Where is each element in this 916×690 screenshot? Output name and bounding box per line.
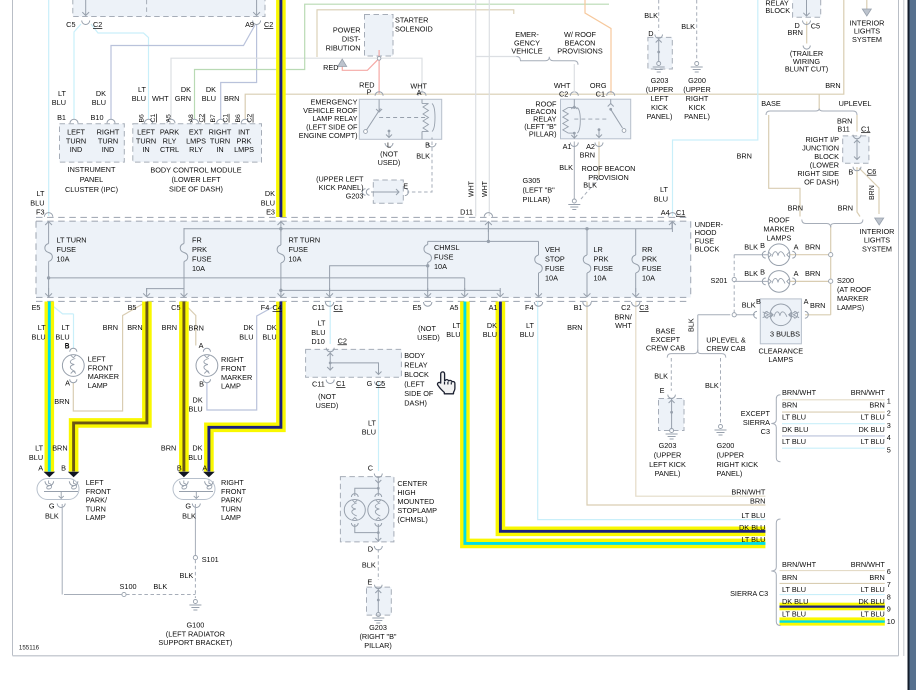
svg-text:LAMP: LAMP bbox=[221, 513, 241, 522]
svg-text:10A: 10A bbox=[545, 274, 558, 283]
svg-text:IN: IN bbox=[142, 145, 149, 154]
svg-text:PANEL): PANEL) bbox=[684, 112, 710, 121]
svg-text:B10: B10 bbox=[91, 113, 104, 122]
svg-text:LT: LT bbox=[58, 89, 67, 98]
svg-text:A4: A4 bbox=[661, 208, 670, 217]
svg-text:BLK: BLK bbox=[742, 301, 756, 310]
svg-text:E5: E5 bbox=[32, 303, 41, 312]
svg-text:BRN: BRN bbox=[580, 151, 595, 160]
svg-text:F3: F3 bbox=[36, 208, 45, 217]
svg-text:A: A bbox=[38, 464, 43, 473]
svg-text:BLU: BLU bbox=[31, 333, 45, 342]
svg-text:(RIGHT "B": (RIGHT "B" bbox=[359, 632, 396, 641]
svg-text:DK BLU: DK BLU bbox=[782, 597, 808, 606]
svg-text:LT: LT bbox=[660, 185, 669, 194]
svg-text:A1: A1 bbox=[489, 303, 498, 312]
svg-text:LIGHTS: LIGHTS bbox=[864, 236, 890, 245]
svg-text:LT: LT bbox=[62, 323, 71, 332]
svg-text:LAMP: LAMP bbox=[88, 381, 108, 390]
svg-text:BRN: BRN bbox=[127, 323, 142, 332]
svg-text:BRN/WHT: BRN/WHT bbox=[731, 487, 766, 496]
svg-text:A9: A9 bbox=[245, 20, 254, 29]
svg-text:B: B bbox=[61, 464, 66, 473]
svg-text:(LEFT "B": (LEFT "B" bbox=[523, 186, 556, 195]
svg-text:A: A bbox=[417, 88, 422, 97]
svg-text:BRN: BRN bbox=[838, 204, 853, 213]
svg-text:E3: E3 bbox=[266, 208, 275, 217]
svg-text:A: A bbox=[794, 269, 799, 278]
svg-text:LT: LT bbox=[38, 323, 47, 332]
svg-text:RIGHT: RIGHT bbox=[221, 355, 244, 364]
svg-text:KICK: KICK bbox=[651, 103, 668, 112]
svg-text:B: B bbox=[177, 464, 182, 473]
svg-text:BRN: BRN bbox=[825, 81, 840, 90]
svg-text:DK: DK bbox=[193, 396, 203, 405]
svg-text:C6: C6 bbox=[867, 167, 876, 176]
svg-text:C2: C2 bbox=[621, 303, 630, 312]
svg-text:BRN: BRN bbox=[52, 444, 67, 453]
svg-text:LT: LT bbox=[37, 189, 46, 198]
svg-text:FRONT: FRONT bbox=[221, 364, 247, 373]
svg-text:SYSTEM: SYSTEM bbox=[862, 244, 892, 253]
svg-text:A: A bbox=[65, 379, 70, 388]
svg-text:B: B bbox=[199, 379, 204, 388]
svg-text:DIST-: DIST- bbox=[342, 35, 361, 44]
svg-text:IN: IN bbox=[216, 145, 223, 154]
svg-text:10A: 10A bbox=[642, 274, 655, 283]
svg-text:BRN: BRN bbox=[787, 28, 802, 37]
svg-text:LAMPS: LAMPS bbox=[768, 355, 793, 364]
svg-text:BLUNT CUT): BLUNT CUT) bbox=[785, 65, 828, 74]
svg-text:8: 8 bbox=[887, 593, 891, 602]
svg-text:SIERRA C3: SIERRA C3 bbox=[730, 589, 768, 598]
svg-text:LEFT: LEFT bbox=[651, 94, 669, 103]
svg-text:BLK: BLK bbox=[705, 381, 719, 390]
svg-text:BLK: BLK bbox=[182, 511, 196, 520]
svg-text:FUSE: FUSE bbox=[545, 264, 565, 273]
svg-text:G305: G305 bbox=[523, 176, 541, 185]
svg-text:7: 7 bbox=[887, 580, 891, 589]
svg-text:RED: RED bbox=[323, 63, 338, 72]
svg-text:6: 6 bbox=[887, 567, 891, 576]
svg-text:10A: 10A bbox=[192, 264, 205, 273]
svg-text:10: 10 bbox=[887, 617, 895, 626]
svg-text:HIGH: HIGH bbox=[397, 488, 415, 497]
svg-text:BLK: BLK bbox=[180, 571, 194, 580]
svg-text:BLK: BLK bbox=[362, 561, 376, 570]
svg-text:C: C bbox=[368, 464, 373, 473]
svg-text:2: 2 bbox=[887, 409, 891, 418]
svg-text:BLU: BLU bbox=[132, 94, 146, 103]
svg-text:DK: DK bbox=[192, 444, 202, 453]
svg-text:BRN: BRN bbox=[162, 323, 177, 332]
svg-text:CTRL: CTRL bbox=[160, 145, 179, 154]
svg-text:RIGHT: RIGHT bbox=[221, 478, 244, 487]
svg-text:(AT ROOF: (AT ROOF bbox=[837, 285, 872, 294]
svg-text:MARKER: MARKER bbox=[88, 372, 119, 381]
svg-text:9: 9 bbox=[887, 605, 891, 614]
svg-text:RLY: RLY bbox=[163, 136, 177, 145]
svg-text:FRONT: FRONT bbox=[221, 487, 247, 496]
svg-text:D10: D10 bbox=[311, 337, 324, 346]
svg-text:BLU: BLU bbox=[261, 199, 275, 208]
svg-text:A5: A5 bbox=[450, 303, 459, 312]
svg-text:FUSE: FUSE bbox=[57, 245, 77, 254]
svg-text:4: 4 bbox=[887, 433, 891, 442]
svg-text:BLK: BLK bbox=[559, 163, 573, 172]
svg-text:LT: LT bbox=[453, 321, 462, 330]
svg-text:DK: DK bbox=[243, 323, 253, 332]
svg-text:RIBUTION: RIBUTION bbox=[326, 44, 361, 53]
svg-text:(UPPER: (UPPER bbox=[654, 450, 682, 459]
svg-text:LT: LT bbox=[35, 444, 44, 453]
svg-text:D: D bbox=[648, 29, 653, 38]
svg-text:BODY: BODY bbox=[404, 351, 425, 360]
svg-text:BRN: BRN bbox=[869, 185, 876, 200]
svg-text:PANEL): PANEL) bbox=[655, 469, 681, 478]
svg-text:D11: D11 bbox=[460, 208, 473, 217]
svg-text:A: A bbox=[199, 341, 204, 350]
svg-text:BLU: BLU bbox=[52, 98, 66, 107]
svg-text:E: E bbox=[367, 577, 372, 586]
svg-text:E5: E5 bbox=[413, 303, 422, 312]
svg-text:BLU: BLU bbox=[362, 428, 376, 437]
svg-text:BLU: BLU bbox=[202, 94, 216, 103]
svg-text:BRN: BRN bbox=[782, 400, 797, 409]
svg-text:B: B bbox=[848, 167, 853, 176]
svg-text:DK: DK bbox=[96, 89, 106, 98]
svg-text:1: 1 bbox=[887, 396, 891, 405]
svg-text:A: A bbox=[202, 464, 207, 473]
svg-text:WHT: WHT bbox=[482, 180, 489, 197]
svg-text:PARK/: PARK/ bbox=[221, 496, 243, 505]
svg-text:EXT: EXT bbox=[189, 128, 204, 137]
svg-text:DK BLU: DK BLU bbox=[858, 597, 884, 606]
svg-text:G: G bbox=[49, 501, 55, 510]
svg-text:WHT: WHT bbox=[468, 180, 475, 197]
svg-text:VEHICLE: VEHICLE bbox=[511, 47, 542, 56]
svg-text:PILLAR): PILLAR) bbox=[364, 641, 392, 650]
svg-text:IND: IND bbox=[70, 145, 83, 154]
svg-text:B: B bbox=[760, 268, 765, 277]
svg-text:WHT: WHT bbox=[152, 94, 169, 103]
svg-text:F4: F4 bbox=[261, 303, 270, 312]
svg-text:BRN: BRN bbox=[54, 397, 69, 406]
svg-text:C3: C3 bbox=[639, 303, 648, 312]
svg-text:BRN: BRN bbox=[750, 496, 765, 505]
svg-text:BLU: BLU bbox=[188, 405, 202, 414]
svg-text:LT BLU: LT BLU bbox=[741, 535, 765, 544]
svg-text:LT BLU: LT BLU bbox=[782, 610, 806, 619]
svg-text:S200: S200 bbox=[837, 276, 854, 285]
svg-text:LEFT KICK: LEFT KICK bbox=[649, 460, 686, 469]
svg-text:PILLAR): PILLAR) bbox=[523, 195, 551, 204]
svg-text:(LEFT RADIATOR: (LEFT RADIATOR bbox=[166, 629, 225, 638]
svg-text:ENGINE COMPT): ENGINE COMPT) bbox=[299, 131, 358, 140]
svg-text:LAMP: LAMP bbox=[221, 382, 241, 391]
svg-text:LAMP: LAMP bbox=[86, 513, 106, 522]
svg-text:IND: IND bbox=[102, 145, 115, 154]
svg-text:KICK: KICK bbox=[688, 103, 705, 112]
svg-text:PROVISIONS: PROVISIONS bbox=[557, 47, 603, 56]
svg-text:PRK: PRK bbox=[594, 255, 609, 264]
svg-text:E: E bbox=[403, 182, 408, 191]
svg-text:PRK: PRK bbox=[642, 255, 657, 264]
svg-text:RLY: RLY bbox=[189, 145, 203, 154]
svg-text:SOLENOID: SOLENOID bbox=[395, 25, 433, 34]
svg-text:DK: DK bbox=[206, 85, 216, 94]
svg-text:FUSE: FUSE bbox=[434, 253, 454, 262]
svg-text:BRN: BRN bbox=[782, 573, 797, 582]
svg-text:LT BLU: LT BLU bbox=[741, 511, 765, 520]
svg-text:G203: G203 bbox=[659, 441, 677, 450]
svg-text:TURN: TURN bbox=[136, 136, 156, 145]
svg-text:BLK: BLK bbox=[45, 511, 59, 520]
svg-text:TURN: TURN bbox=[86, 504, 106, 513]
svg-text:G100: G100 bbox=[186, 621, 204, 630]
svg-text:INSTRUMENT: INSTRUMENT bbox=[68, 165, 116, 174]
svg-text:BLU: BLU bbox=[239, 333, 253, 342]
svg-text:B: B bbox=[756, 297, 761, 306]
svg-text:BRN: BRN bbox=[869, 573, 884, 582]
svg-text:C1: C1 bbox=[223, 114, 230, 123]
svg-text:CREW CAB: CREW CAB bbox=[706, 344, 745, 353]
svg-text:BLK: BLK bbox=[744, 269, 758, 278]
svg-text:C3: C3 bbox=[761, 427, 770, 436]
svg-text:BRN: BRN bbox=[567, 323, 582, 332]
svg-text:B1: B1 bbox=[574, 303, 583, 312]
svg-text:LEFT: LEFT bbox=[67, 128, 85, 137]
svg-text:FRONT: FRONT bbox=[88, 363, 114, 372]
svg-text:C1: C1 bbox=[336, 379, 345, 388]
svg-text:10A: 10A bbox=[57, 255, 70, 264]
svg-text:BLU: BLU bbox=[30, 199, 44, 208]
svg-text:SYSTEM: SYSTEM bbox=[852, 35, 882, 44]
svg-text:MARKER: MARKER bbox=[837, 294, 868, 303]
svg-text:WHT: WHT bbox=[615, 321, 632, 330]
svg-text:BRN: BRN bbox=[161, 444, 176, 453]
svg-text:LT: LT bbox=[318, 318, 327, 327]
svg-text:BRN: BRN bbox=[810, 301, 825, 310]
svg-text:(NOT: (NOT bbox=[418, 324, 436, 333]
svg-text:RIGHT: RIGHT bbox=[97, 128, 120, 137]
svg-text:RIGHT KICK: RIGHT KICK bbox=[717, 460, 759, 469]
svg-text:DK: DK bbox=[487, 321, 497, 330]
svg-text:DASH): DASH) bbox=[404, 398, 427, 407]
svg-text:G: G bbox=[367, 379, 373, 388]
svg-text:G203: G203 bbox=[346, 191, 364, 200]
svg-text:INT: INT bbox=[238, 128, 250, 137]
svg-text:P: P bbox=[367, 88, 372, 97]
svg-text:C2: C2 bbox=[338, 336, 347, 345]
svg-text:B6: B6 bbox=[235, 114, 242, 123]
svg-text:C5: C5 bbox=[66, 20, 75, 29]
svg-text:FRONT: FRONT bbox=[86, 487, 112, 496]
svg-text:RR: RR bbox=[642, 245, 653, 254]
svg-text:LT BLU: LT BLU bbox=[782, 413, 806, 422]
svg-text:BODY CONTROL MODULE: BODY CONTROL MODULE bbox=[150, 165, 241, 174]
svg-text:USED): USED) bbox=[316, 401, 339, 410]
svg-text:BLK: BLK bbox=[687, 318, 696, 332]
svg-text:MARKER: MARKER bbox=[763, 225, 794, 234]
svg-text:3 BULBS: 3 BULBS bbox=[770, 330, 800, 339]
svg-text:LT: LT bbox=[368, 419, 377, 428]
svg-text:LT BLU: LT BLU bbox=[861, 585, 885, 594]
svg-text:LMPS: LMPS bbox=[234, 145, 254, 154]
svg-text:ROOF: ROOF bbox=[768, 216, 790, 225]
svg-text:BLK: BLK bbox=[416, 151, 430, 160]
svg-text:C1: C1 bbox=[150, 114, 157, 123]
svg-text:INTERIOR: INTERIOR bbox=[860, 227, 895, 236]
svg-text:OF DASH): OF DASH) bbox=[804, 178, 839, 187]
svg-text:A: A bbox=[794, 243, 799, 252]
svg-text:C5: C5 bbox=[811, 21, 820, 30]
svg-text:BLK: BLK bbox=[644, 11, 658, 20]
svg-text:PRK: PRK bbox=[236, 136, 251, 145]
svg-text:FUSE: FUSE bbox=[594, 264, 614, 273]
svg-text:RIGHT: RIGHT bbox=[686, 94, 709, 103]
svg-text:S100: S100 bbox=[120, 582, 137, 591]
svg-text:S101: S101 bbox=[202, 555, 219, 564]
svg-text:SIERRA: SIERRA bbox=[743, 418, 770, 427]
svg-text:A8: A8 bbox=[188, 114, 195, 123]
svg-text:C1: C1 bbox=[334, 303, 343, 312]
svg-text:BRN: BRN bbox=[805, 269, 820, 278]
svg-text:RELAY: RELAY bbox=[404, 360, 428, 369]
svg-text:BLOCK: BLOCK bbox=[765, 6, 790, 15]
svg-text:GRN: GRN bbox=[175, 94, 191, 103]
svg-text:10A: 10A bbox=[434, 262, 447, 271]
svg-text:FUSE: FUSE bbox=[192, 255, 212, 264]
svg-text:VEH: VEH bbox=[545, 245, 560, 254]
svg-text:E: E bbox=[660, 386, 665, 395]
svg-text:(LOWER LEFT: (LOWER LEFT bbox=[171, 175, 221, 184]
svg-text:MARKER: MARKER bbox=[221, 373, 252, 382]
svg-text:STOPLAMP: STOPLAMP bbox=[397, 506, 437, 515]
svg-text:FR: FR bbox=[192, 236, 202, 245]
svg-text:C2: C2 bbox=[93, 20, 102, 29]
svg-text:BLK: BLK bbox=[744, 243, 758, 252]
svg-text:C5: C5 bbox=[171, 303, 180, 312]
svg-text:LT: LT bbox=[526, 321, 535, 330]
svg-text:TURN: TURN bbox=[66, 136, 86, 145]
svg-text:(UPPER: (UPPER bbox=[683, 85, 711, 94]
svg-text:BLOCK: BLOCK bbox=[404, 370, 429, 379]
svg-text:BLU: BLU bbox=[262, 333, 276, 342]
svg-text:155116: 155116 bbox=[19, 645, 40, 652]
svg-text:C11: C11 bbox=[312, 303, 325, 312]
svg-text:B: B bbox=[760, 241, 765, 250]
svg-text:BRN/WHT: BRN/WHT bbox=[851, 388, 886, 397]
svg-text:BRN: BRN bbox=[805, 243, 820, 252]
svg-text:LR: LR bbox=[594, 245, 603, 254]
svg-text:C2: C2 bbox=[247, 114, 254, 123]
svg-text:S201: S201 bbox=[710, 276, 727, 285]
svg-text:C1: C1 bbox=[676, 208, 685, 217]
svg-text:MOUNTED: MOUNTED bbox=[397, 497, 434, 506]
svg-text:DK BLU: DK BLU bbox=[858, 425, 884, 434]
svg-text:LT BLU: LT BLU bbox=[782, 585, 806, 594]
svg-text:TURN: TURN bbox=[221, 504, 241, 513]
svg-text:CENTER: CENTER bbox=[397, 479, 427, 488]
svg-text:LEFT: LEFT bbox=[88, 354, 106, 363]
svg-text:3: 3 bbox=[887, 421, 891, 430]
svg-text:RT TURN: RT TURN bbox=[289, 236, 321, 245]
svg-text:F4: F4 bbox=[525, 303, 534, 312]
svg-text:DK: DK bbox=[265, 189, 275, 198]
svg-text:USED): USED) bbox=[417, 333, 440, 342]
svg-text:SIDE OF DASH): SIDE OF DASH) bbox=[169, 184, 223, 193]
svg-text:A1: A1 bbox=[563, 142, 572, 151]
svg-text:BLU: BLU bbox=[520, 330, 534, 339]
svg-text:BLU: BLU bbox=[29, 453, 43, 462]
svg-text:FUSE: FUSE bbox=[289, 245, 309, 254]
svg-text:LT BLU: LT BLU bbox=[861, 610, 885, 619]
svg-text:LT: LT bbox=[138, 85, 147, 94]
svg-text:LT BLU: LT BLU bbox=[861, 437, 885, 446]
svg-text:LT BLU: LT BLU bbox=[861, 413, 885, 422]
svg-text:LAMPS: LAMPS bbox=[767, 234, 792, 243]
svg-text:ROOF BEACON: ROOF BEACON bbox=[582, 164, 636, 173]
svg-text:LMPS: LMPS bbox=[186, 136, 206, 145]
svg-text:PANEL: PANEL bbox=[80, 175, 103, 184]
svg-text:BASE: BASE bbox=[761, 99, 781, 108]
svg-text:A5: A5 bbox=[166, 114, 173, 123]
svg-text:DK BLU: DK BLU bbox=[782, 425, 808, 434]
svg-text:CLUSTER (IPC): CLUSTER (IPC) bbox=[65, 185, 118, 194]
svg-text:C2: C2 bbox=[559, 89, 568, 98]
svg-text:LAMPS): LAMPS) bbox=[837, 303, 864, 312]
svg-text:(UPPER: (UPPER bbox=[646, 85, 674, 94]
svg-text:BRN: BRN bbox=[224, 94, 239, 103]
svg-text:C11: C11 bbox=[312, 380, 325, 389]
svg-text:PANEL): PANEL) bbox=[647, 112, 673, 121]
svg-text:G200: G200 bbox=[688, 76, 706, 85]
svg-text:DK: DK bbox=[181, 85, 191, 94]
svg-text:10A: 10A bbox=[594, 274, 607, 283]
svg-text:C5: C5 bbox=[376, 379, 385, 388]
svg-text:(LEFT: (LEFT bbox=[404, 379, 425, 388]
svg-text:B11: B11 bbox=[837, 124, 849, 133]
svg-text:PANEL): PANEL) bbox=[717, 469, 743, 478]
svg-text:(UPPER: (UPPER bbox=[717, 450, 745, 459]
svg-text:FUSE: FUSE bbox=[642, 264, 662, 273]
svg-text:B: B bbox=[65, 341, 70, 350]
svg-text:BLU: BLU bbox=[311, 328, 325, 337]
svg-text:BLK: BLK bbox=[681, 22, 695, 31]
svg-text:CREW CAB: CREW CAB bbox=[646, 343, 685, 352]
svg-text:BRN/WHT: BRN/WHT bbox=[782, 560, 817, 569]
svg-text:G203: G203 bbox=[369, 623, 387, 632]
svg-text:EXCEPT: EXCEPT bbox=[741, 409, 771, 418]
svg-text:G200: G200 bbox=[717, 441, 735, 450]
svg-text:BLU: BLU bbox=[483, 330, 497, 339]
svg-text:G: G bbox=[185, 501, 191, 510]
svg-text:RIGHT: RIGHT bbox=[209, 128, 232, 137]
svg-text:STOP: STOP bbox=[545, 255, 565, 264]
svg-text:5: 5 bbox=[887, 446, 891, 455]
svg-text:STARTER: STARTER bbox=[395, 16, 428, 25]
svg-text:USED): USED) bbox=[378, 158, 401, 167]
svg-text:B1: B1 bbox=[57, 113, 66, 122]
svg-text:BLU: BLU bbox=[188, 453, 202, 462]
svg-text:BLU: BLU bbox=[654, 195, 668, 204]
svg-text:CHMSL: CHMSL bbox=[434, 243, 460, 252]
svg-text:A: A bbox=[804, 297, 809, 306]
svg-text:BRN: BRN bbox=[736, 152, 751, 161]
svg-text:BRN: BRN bbox=[788, 204, 803, 213]
svg-text:C2: C2 bbox=[198, 114, 205, 123]
